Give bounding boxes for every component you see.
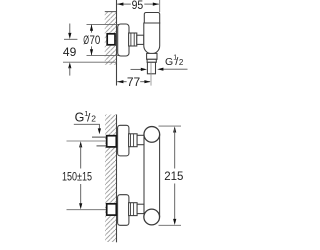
wall top edge (105, 11, 117, 13)
vertical bar of fixture (143, 134, 145, 217)
wall face line (also ext for 95 and 77) (116, 0, 118, 86)
outlet ring (147, 59, 156, 62)
top circle knob (144, 127, 160, 143)
wall hatching (top view) (105, 12, 117, 65)
escutcheon capsule (side view) (118, 24, 129, 56)
valve body (rounded bottom) (144, 23, 160, 54)
150+-15 bottom tick (67, 209, 108, 211)
svg-text:2: 2 (179, 58, 184, 67)
extension line dia70 top (87, 23, 122, 25)
bottom circle knob (144, 209, 160, 225)
union box in wall (top view) (107, 34, 115, 45)
svg-text:95: 95 (132, 0, 144, 12)
outlet pipe (147, 62, 155, 74)
union box bottom (bottom view) (107, 204, 117, 215)
pipe top (nut to circle) (137, 135, 144, 144)
escutcheon top (front) (118, 125, 129, 156)
dim 77 (117, 81, 126, 83)
connector pipe (137, 35, 144, 44)
supply pipe stub (top connection) (92, 136, 107, 138)
opposing arrow pointing right at pipe (131, 68, 142, 70)
pipe bottom (137, 204, 144, 213)
union box top (bottom view) (107, 136, 117, 147)
150+-15 dim: top tick (67, 140, 108, 142)
svg-text:Ø: Ø (83, 33, 89, 47)
nut top (129, 134, 138, 147)
215 dim: ext bottom (159, 224, 182, 226)
svg-text:215: 215 (164, 171, 183, 183)
dim 49 (69, 24, 71, 34)
svg-text:77: 77 (127, 75, 141, 89)
215 dim line + arrows (173, 126, 176, 132)
valve top cap (144, 13, 159, 24)
svg-text:2: 2 (91, 114, 96, 124)
leader underline, corner, down arrow (74, 124, 100, 129)
215 dim: ext top (159, 125, 182, 127)
svg-text:150±15: 150±15 (62, 169, 92, 183)
nut bottom (129, 203, 138, 216)
escutcheon bottom (front) (118, 195, 129, 226)
pipe centerline / ext for 77 (150, 63, 152, 86)
ext line 49 bottom (long to wall) (63, 61, 117, 63)
extension line dia70 bottom (87, 55, 122, 57)
outlet nut (147, 53, 157, 59)
wall hatching (bottom view) (105, 115, 117, 243)
svg-text:70: 70 (90, 33, 101, 47)
dim 95 (117, 3, 131, 5)
svg-text:49: 49 (63, 45, 77, 59)
wall face line (116, 115, 118, 243)
leader underline + arrow (points left to pipe) (163, 68, 188, 70)
svg-text:G: G (165, 56, 173, 68)
dim dia70 (91, 25, 93, 33)
hex nut (top view) (129, 33, 137, 46)
svg-text:G: G (75, 111, 85, 125)
